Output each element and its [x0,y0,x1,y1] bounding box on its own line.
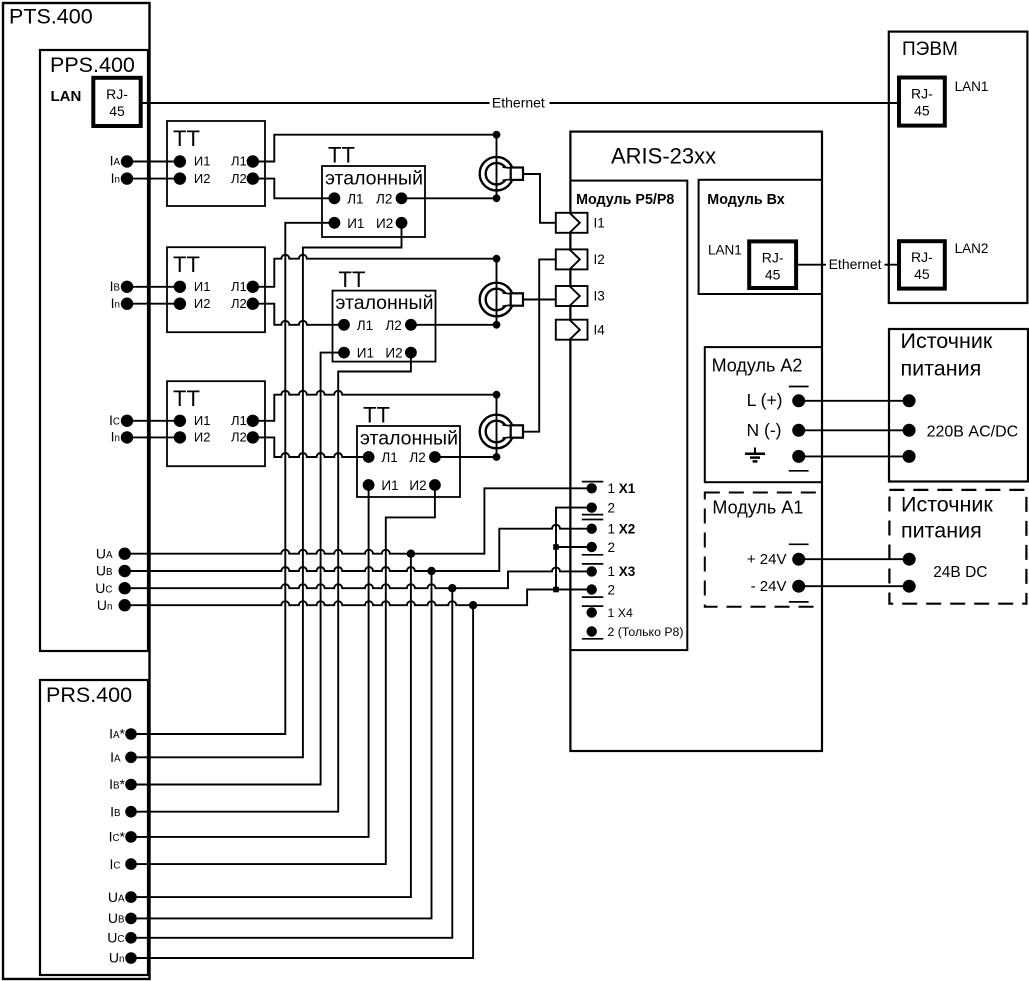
wire эталонный-A И2 to PRS Ia [131,223,402,758]
wire junction dots [407,550,415,558]
svg-text:Источник: Источник [901,329,993,353]
svg-text:ТТ: ТТ [173,126,200,151]
svg-text:2: 2 [608,500,616,515]
svg-text:I1: I1 [594,216,605,231]
svg-text:1 X2: 1 X2 [608,522,636,537]
svg-text:Л2: Л2 [231,171,247,186]
svg-text:In: In [111,295,120,311]
svg-text:IC: IC [109,412,120,428]
connector RJ-45 ПЭВМ LAN2 [899,241,945,288]
wire net Ub (PPS to X2.1) [125,525,592,571]
svg-text:In: In [111,429,120,445]
svg-text:Модуль Вх: Модуль Вх [707,192,784,208]
wire X2.2 to bus [556,546,592,548]
svg-text:Л2: Л2 [231,430,247,445]
svg-text:45: 45 [765,266,781,282]
svg-text:In: In [111,170,120,186]
svg-text:LAN: LAN [51,88,82,105]
wire эталонный-B Л2 to clamp B bottom [411,324,497,326]
svg-text:ТТ: ТТ [363,403,390,428]
wire net Uc (PPS to X3.1) [125,567,592,588]
wire In to TT-A И2 [127,178,180,180]
input connector I3 [556,286,588,306]
wire эталонный-B И2 to PRS Ib [131,353,411,812]
wire TT-A Л2 to эталонный-A Л1 [253,179,335,199]
svg-text:UA: UA [96,545,113,561]
wire TT-A Л1 to clamp A top [253,135,497,162]
Модуль А2 terminal bars [789,386,809,388]
svg-text:ТТ: ТТ [173,386,200,411]
svg-text:ТТ: ТТ [173,252,200,277]
svg-text:И2: И2 [194,296,211,311]
PPS.400 terminal dots [121,155,133,167]
current transformer TT phase B [167,247,265,332]
current clamp sensor phase C [496,395,498,457]
svg-text:Л2: Л2 [385,318,401,333]
svg-text:Модуль А1: Модуль А1 [712,498,803,518]
svg-text:220В AC/DC: 220В AC/DC [927,424,1019,441]
wire clamp C to I2 [523,259,558,431]
module box Модуль Р5/Р8 [570,181,687,650]
wire clamp B to I3 [523,299,558,301]
device box PRS.400 [40,680,148,975]
terminal block X1-X4 pin dots [587,483,597,493]
input connector I1 [556,213,588,233]
svg-text:UB: UB [108,910,125,926]
wire Ib to TT-B И1 [127,286,180,288]
current clamp sensor phase A [496,135,498,199]
svg-text:Модуль Р5/Р8: Модуль Р5/Р8 [576,192,674,208]
svg-text:И2: И2 [409,478,426,493]
svg-text:IA*: IA* [109,726,125,742]
svg-text:IB*: IB* [109,776,125,792]
wire N(-) to supply [799,429,909,431]
box Источник питания 220В [889,329,1028,482]
svg-text:Л2: Л2 [231,296,247,311]
svg-text:И2: И2 [376,216,393,231]
wire Ethernet Модуль Вх to ПЭВМ LAN2 [796,264,899,266]
эталонный pin dots [329,192,341,204]
svg-text:I2: I2 [594,252,605,267]
wire Un branch to PRS [131,605,473,958]
power terminal dots [792,394,805,407]
svg-text:2: 2 [608,540,616,555]
svg-text:N (-): N (-) [747,420,782,440]
svg-text:И1: И1 [357,346,374,361]
svg-text:Модуль А2: Модуль А2 [712,356,803,376]
svg-text:И2: И2 [385,346,402,361]
module box Модуль Вх [699,180,822,294]
svg-text:2 (Только Р8): 2 (Только Р8) [608,625,684,639]
wire Ub branch to PRS [131,571,432,918]
input connector I2 [556,249,588,269]
svg-text:RJ-: RJ- [911,86,933,102]
svg-text:Л1: Л1 [347,191,363,206]
svg-text:ARIS-23xx: ARIS-23xx [611,144,716,169]
svg-text:И1: И1 [194,154,211,169]
svg-text:1 X4: 1 X4 [608,606,633,620]
svg-text:Л1: Л1 [231,154,247,169]
svg-text:питания: питания [901,356,982,380]
svg-text:45: 45 [914,266,930,282]
svg-text:Ethernet: Ethernet [492,94,545,110]
svg-text:Un: Un [109,950,125,966]
current clamp sensor phase B [496,259,498,325]
wire In to TT-B И2 [127,303,180,305]
svg-text:Un: Un [97,597,113,613]
enclosure box PTS.400 [3,3,150,979]
PRS.400 terminal dots [125,728,137,740]
svg-text:PRS.400: PRS.400 [46,683,132,707]
wire эталонный-B И1 to PRS Ib* [131,353,344,785]
wire -24V to supply [799,585,910,587]
svg-text:UC: UC [95,580,112,596]
svg-text:24В DC: 24В DC [933,564,987,581]
svg-text:Ethernet: Ethernet [829,256,882,272]
wire эталонный-C И2 to PRS Ic [131,485,435,864]
wire TT-B Л2 to эталонный-B Л1 [253,304,344,325]
svg-text:UB: UB [96,563,113,579]
wire PE ground to supply [799,455,909,457]
svg-text:1 X3: 1 X3 [608,564,636,579]
svg-text:Л1: Л1 [357,318,373,333]
svg-text:И2: И2 [194,430,211,445]
svg-text:+ 24V: + 24V [747,551,787,568]
svg-text:Л1: Л1 [381,450,397,465]
svg-text:IC: IC [110,856,121,872]
ground symbol PE [754,448,756,454]
svg-text:эталонный: эталонный [360,427,458,449]
svg-text:2: 2 [608,582,616,597]
svg-text:LAN1: LAN1 [708,243,742,258]
wire Ua branch to PRS [131,554,411,897]
connector RJ-45 PPS LAN [93,78,140,126]
svg-text:ТТ: ТТ [339,267,366,292]
svg-text:эталонный: эталонный [336,292,434,314]
svg-text:эталонный: эталонный [325,167,423,189]
svg-text:IA: IA [110,749,121,765]
wire эталонный-C И1 to PRS Ic* [131,485,369,837]
current transformer TT phase A [167,121,265,206]
wire эталонный-A И1 to PRS Ia* [131,223,334,734]
svg-text:Л2: Л2 [409,450,425,465]
svg-text:IB: IB [110,278,121,294]
box Источник питания 24В (dashed) [889,490,1026,604]
svg-text:UC: UC [107,930,124,946]
svg-text:RJ-: RJ- [911,249,933,265]
wire bus X1.2/X2.2 common [556,508,592,590]
wire TT-B Л1 to clamp B top [253,255,497,287]
wire TT-C Л2 to эталонный-C Л1 [253,437,369,457]
module box Модуль А2 [705,347,822,482]
device box PPS.400 [40,50,148,651]
wire эталонный-C Л2 to clamp C bottom [435,456,497,458]
wire In to TT-C И2 [127,436,180,438]
svg-text:И1: И1 [194,413,211,428]
svg-text:PPS.400: PPS.400 [50,53,135,77]
module box Модуль А1 (dashed) [705,493,822,607]
svg-text:1 X1: 1 X1 [608,481,636,496]
svg-text:IA: IA [110,153,121,169]
svg-text:PTS.400: PTS.400 [9,5,93,29]
connector RJ-45 ПЭВМ LAN1 [899,78,945,126]
input connector I4 [556,320,588,340]
svg-text:ПЭВМ: ПЭВМ [902,39,958,60]
terminal block X1-X4 pin bars [582,481,604,483]
svg-text:И1: И1 [194,279,211,294]
TT pin dots [174,155,186,167]
svg-text:RJ-: RJ- [106,86,128,102]
wire net Un (PPS to X3.2) [125,590,592,606]
svg-text:45: 45 [109,103,125,119]
wire Ia to TT-A И1 [127,161,180,163]
svg-text:UA: UA [108,889,125,905]
wire Uc branch to PRS [131,588,452,938]
wire L(+) to supply [799,400,909,402]
wire net Ua (PPS to X1.1) [125,488,592,553]
svg-text:Л2: Л2 [376,191,392,206]
svg-text:RJ-: RJ- [762,249,784,265]
device box ARIS-23xx [570,132,822,751]
connector RJ-45 Модуль Вх [749,241,796,288]
svg-text:Л1: Л1 [231,413,247,428]
svg-text:питания: питания [901,518,982,542]
svg-text:И1: И1 [381,478,398,493]
wire clamp A to I1 [523,174,558,223]
current transformer TT phase C [167,381,265,466]
wire +24V to supply [799,558,910,560]
svg-text:Источник: Источник [901,492,993,516]
wire Ic to TT-C И1 [127,420,180,422]
svg-text:I4: I4 [594,322,606,337]
wire Ethernet PPS LAN to ПЭВМ LAN1 [141,102,899,104]
svg-text:45: 45 [914,103,930,119]
device box ПЭВМ (PC) [889,32,1028,303]
svg-text:L (+): L (+) [747,390,783,410]
svg-text:IC*: IC* [109,829,126,845]
svg-text:LAN1: LAN1 [955,79,989,94]
svg-text:И2: И2 [194,171,211,186]
svg-text:IB: IB [110,803,121,819]
svg-text:I3: I3 [594,289,605,304]
svg-text:ТТ: ТТ [328,143,355,168]
svg-text:- 24V: - 24V [751,578,787,595]
wire TT-C Л1 to clamp C top [253,391,497,421]
svg-text:И1: И1 [347,216,364,231]
svg-text:Л1: Л1 [231,279,247,294]
svg-text:LAN2: LAN2 [955,241,989,256]
wire эталонный-A Л2 to clamp A bottom [402,197,497,199]
